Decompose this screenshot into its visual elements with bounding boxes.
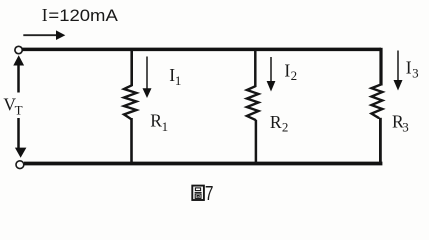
svg-text:1: 1 [162,119,169,134]
wire branch 1 upper [130,50,133,86]
svg-text:2: 2 [291,68,298,83]
wire branch 1 lower [130,118,133,163]
caption glyph 圖 (drawn) [192,186,204,200]
svg-text:=120mA: =120mA [48,7,117,25]
wire bottom horizontal [24,162,382,166]
wire branch 2 lower [255,120,258,163]
resistor R3 [372,85,383,118]
current arrow I2 [267,57,276,92]
svg-text:3: 3 [412,65,419,80]
wire branch 3 lower [379,118,382,163]
label R1 [150,111,168,134]
label R2 [270,112,289,135]
svg-text:T: T [15,103,23,118]
svg-text:I: I [42,5,48,25]
wire branch 2 upper [254,50,257,87]
label I2 [284,60,297,83]
svg-text:3: 3 [402,119,409,134]
svg-text:R: R [270,112,282,132]
source polarity arrow down (- terminal) [15,118,27,158]
label I1 [169,65,181,88]
wire top horizontal [22,48,381,52]
bottom terminal node (circle) [16,161,24,169]
svg-text:I: I [406,58,412,78]
wire branch 3 vertical (right side) [379,48,382,86]
label I3 [406,58,419,81]
resistor R1 [124,85,136,118]
current arrow I1 [143,57,152,99]
top terminal node (circle) [15,46,22,53]
resistor R2 [247,86,259,120]
source polarity arrow up (+ terminal) [13,55,24,92]
svg-text:1: 1 [175,73,182,88]
label R3 [392,111,409,134]
svg-text:2: 2 [282,120,289,135]
svg-text:7: 7 [205,183,214,205]
label VT [3,94,22,117]
current arrow I (horizontal) [23,30,65,40]
svg-text:I: I [284,60,290,80]
svg-text:R: R [150,111,162,131]
current arrow I3 [394,51,403,91]
label I=120mA [42,5,118,25]
